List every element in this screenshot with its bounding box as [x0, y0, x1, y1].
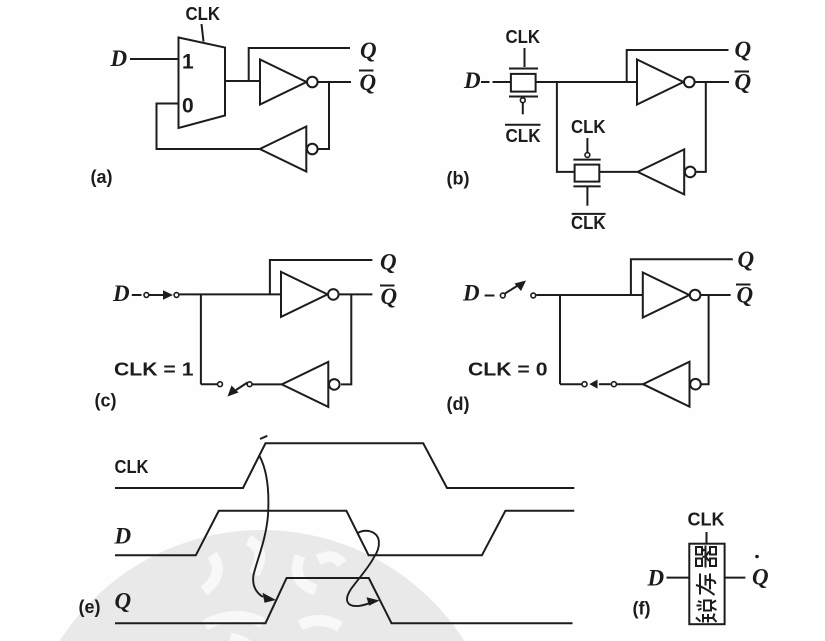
svg-text:Q: Q [380, 250, 397, 275]
waveform CLK [115, 443, 574, 488]
wire Qbar (c) [339, 293, 373, 295]
tick mark [260, 436, 267, 439]
svg-text:CLK = 1: CLK = 1 [114, 360, 194, 380]
latch box U1 [689, 544, 724, 625]
inverter G4 [638, 149, 696, 194]
svg-text:Q: Q [738, 247, 755, 272]
svg-text:CLK = 0: CLK = 0 [468, 360, 548, 380]
transmission gate TG2 [586, 138, 588, 152]
switch S3 open [500, 293, 505, 298]
inverter G1 [260, 60, 318, 105]
wire junction down [200, 294, 202, 384]
wire main (c) [180, 293, 282, 295]
svg-text:Q: Q [735, 70, 752, 95]
wire D input (b) [481, 81, 490, 83]
wire Qbar (d) [700, 294, 730, 296]
wire D (f) [667, 577, 690, 579]
svg-text:CLK: CLK [688, 510, 725, 530]
inverter G2 [260, 127, 318, 172]
svg-text:D: D [462, 281, 480, 306]
inverter G8 [643, 362, 701, 407]
svg-text:D: D [112, 281, 130, 306]
svg-text:(c): (c) [95, 391, 117, 411]
wire to Q [249, 48, 350, 81]
svg-text:D: D [114, 524, 132, 549]
svg-text:1: 1 [182, 51, 194, 74]
wire G4 out to TG2 [599, 171, 637, 173]
svg-text:CLK: CLK [571, 213, 606, 233]
switch S4 closed [611, 382, 616, 387]
char 锁 [696, 601, 717, 623]
svg-text:Q: Q [381, 284, 398, 309]
wire feedback (c) [341, 294, 351, 384]
svg-text:CLK: CLK [506, 27, 541, 47]
wire TG1 to inverter [536, 81, 637, 83]
svg-text:0: 0 [182, 95, 194, 118]
svg-text:CLK: CLK [186, 4, 221, 24]
svg-text:Q: Q [735, 37, 752, 62]
svg-text:Q: Q [752, 565, 769, 590]
CLK lead wire [202, 24, 204, 42]
wire D dash (d) [485, 295, 495, 297]
char 器 [696, 546, 716, 568]
svg-text:Q: Q [360, 38, 377, 63]
arrow CLK to Q [253, 456, 268, 597]
svg-text:(f): (f) [633, 599, 651, 619]
char 存 [696, 574, 715, 596]
svg-text:D: D [647, 566, 665, 591]
svg-text:D: D [110, 46, 128, 71]
wire feedback [318, 82, 329, 149]
wire 0-input [157, 104, 260, 150]
inverter G7 [643, 273, 701, 318]
svg-text:(b): (b) [447, 169, 470, 189]
waveform D [115, 511, 574, 556]
svg-text:Q: Q [360, 70, 377, 95]
wire to Q (c) [270, 260, 373, 294]
wire Qbar (b) [695, 81, 729, 83]
wire mux output [225, 80, 260, 82]
wire G8 out [616, 383, 644, 385]
dot above Q [755, 555, 759, 559]
svg-text:CLK: CLK [571, 117, 606, 137]
wire D dash [132, 294, 142, 296]
svg-text:CLK: CLK [115, 457, 149, 477]
switch S2 open [247, 382, 252, 387]
svg-text:Q: Q [737, 283, 754, 308]
wire G6 out [252, 383, 282, 385]
wire to Q (b) [627, 50, 729, 82]
svg-text:(d): (d) [447, 394, 470, 414]
wire main (d) [537, 294, 643, 296]
svg-text:Q: Q [115, 589, 132, 614]
chinese label 锁存器 (latch) rotated [696, 546, 717, 623]
wire CLK lead (f) [706, 532, 708, 544]
wire junction down to TG2 [557, 82, 574, 172]
transmission gate TG1 [524, 48, 526, 67]
wire D input [130, 58, 179, 60]
wire feedback right (d) [702, 295, 709, 384]
wire feedback right (b) [697, 82, 706, 172]
svg-text:D: D [463, 68, 481, 93]
switch S1 closed [144, 293, 149, 298]
wire Qbar [318, 81, 352, 83]
svg-text:(a): (a) [91, 167, 113, 187]
wire Q (f) [725, 577, 746, 579]
wire to Q (d) [631, 259, 733, 295]
inverter G6 [282, 362, 340, 407]
arrow D to Q [347, 531, 379, 606]
inverter G3 [637, 60, 695, 105]
svg-text:(e): (e) [79, 597, 101, 617]
inverter G5 [281, 272, 339, 317]
waveform Q [115, 578, 573, 623]
wire junction down (d) [559, 295, 561, 384]
mux M1 [179, 38, 226, 129]
svg-text:CLK: CLK [506, 126, 541, 146]
